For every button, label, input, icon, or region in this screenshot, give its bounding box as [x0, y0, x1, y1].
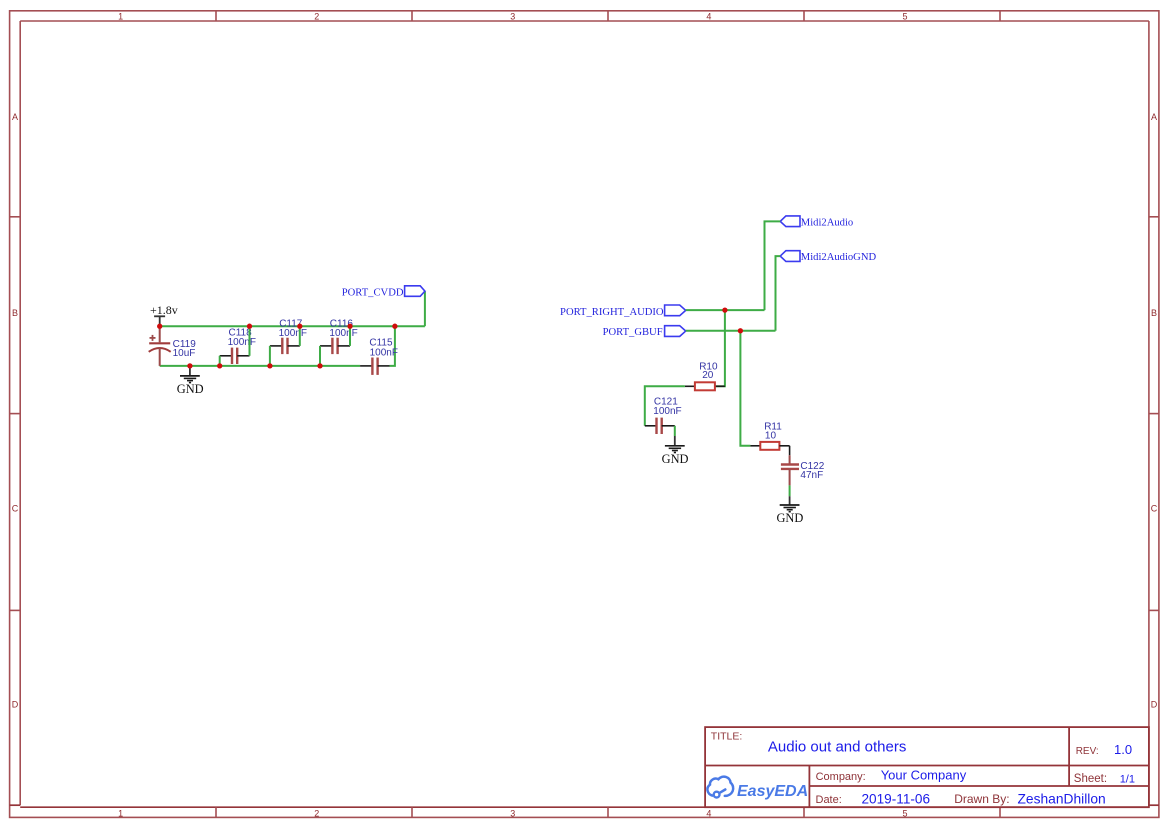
EasyEDA logo — [707, 777, 733, 798]
port PORT_CVDD — [342, 286, 425, 299]
svg-text:C: C — [1151, 504, 1158, 514]
svg-text:47nF: 47nF — [800, 470, 823, 481]
wire C117 right to top rail — [299, 326, 301, 346]
wire right-audio rail — [686, 309, 765, 311]
capacitor C119 — [149, 326, 197, 366]
wire C121 right down — [674, 426, 676, 436]
title block outline — [705, 727, 1149, 807]
wire right-audio junction down to R10 — [715, 310, 725, 386]
resistor R11 — [750, 422, 789, 456]
ground GND at C121 — [662, 436, 689, 466]
wire C118 right to top rail — [249, 326, 251, 356]
power flag +1.8v — [150, 303, 178, 326]
svg-text:4: 4 — [706, 11, 711, 21]
frame column ticks bottom — [216, 807, 1000, 817]
svg-text:B: B — [12, 308, 18, 318]
wire C122 to GND — [789, 485, 791, 496]
svg-text:D: D — [1151, 699, 1158, 709]
svg-text:Date:: Date: — [816, 794, 842, 806]
svg-text:10uF: 10uF — [173, 348, 196, 359]
wire C117 left to bottom rail — [269, 346, 271, 366]
capacitor C118 — [220, 328, 256, 365]
svg-text:5: 5 — [902, 808, 907, 818]
wire C116 left to bottom rail — [319, 346, 321, 366]
svg-text:Midi2Audio: Midi2Audio — [801, 218, 853, 229]
svg-text:TITLE:: TITLE: — [711, 731, 743, 743]
svg-text:5: 5 — [902, 11, 907, 21]
wire from PORT_CVDD down to top rail — [424, 291, 426, 326]
capacitor C115 — [360, 338, 398, 375]
frame row ticks left — [10, 217, 20, 611]
svg-text:GND: GND — [662, 452, 689, 466]
ground GND left — [177, 366, 204, 396]
svg-text:REV:: REV: — [1076, 746, 1099, 757]
wire C118 left to bottom rail — [219, 356, 221, 366]
svg-text:EasyEDA: EasyEDA — [737, 783, 808, 800]
svg-text:PORT_RIGHT_AUDIO: PORT_RIGHT_AUDIO — [560, 307, 664, 318]
port PORT_GBUF — [603, 326, 686, 338]
svg-text:A: A — [1151, 112, 1157, 122]
wire Midi2Audio to right-audio rail — [765, 221, 781, 310]
svg-text:2: 2 — [314, 808, 319, 818]
svg-text:B: B — [1151, 308, 1157, 318]
resistor R10 — [685, 361, 725, 390]
capacitor C121 — [645, 396, 682, 434]
svg-text:PORT_CVDD: PORT_CVDD — [342, 287, 404, 298]
wire gbuf junction down to R11 — [740, 331, 750, 446]
wire Midi2AudioGND to gbuf rail — [776, 256, 781, 331]
capacitor C116 — [320, 319, 358, 355]
svg-text:100nF: 100nF — [370, 348, 398, 359]
svg-text:2019-11-06: 2019-11-06 — [862, 791, 931, 806]
wire top rail — [160, 325, 425, 327]
svg-text:ZeshanDhillon: ZeshanDhillon — [1018, 791, 1106, 806]
junction dots top rail — [157, 324, 397, 329]
svg-text:D: D — [12, 699, 19, 709]
svg-text:Audio out and others: Audio out and others — [768, 739, 906, 756]
port Midi2Audio — [780, 216, 853, 229]
svg-text:Company:: Company: — [816, 771, 866, 783]
svg-text:3: 3 — [510, 11, 515, 21]
frame column labels bottom — [118, 808, 907, 818]
junction dot right-audio/R10 — [722, 307, 727, 312]
svg-text:A: A — [12, 112, 18, 122]
svg-text:Your Company: Your Company — [881, 768, 967, 783]
svg-text:+1.8v: +1.8v — [150, 303, 178, 317]
capacitor C117 — [270, 319, 307, 355]
svg-text:Sheet:: Sheet: — [1074, 773, 1107, 785]
svg-text:GND: GND — [177, 382, 204, 396]
svg-text:PORT_GBUF: PORT_GBUF — [603, 327, 663, 338]
junction dots bottom rail — [187, 363, 322, 368]
frame row labels left — [12, 112, 19, 709]
svg-text:Drawn By:: Drawn By: — [954, 792, 1009, 806]
junction dot gbuf/R11 — [738, 328, 743, 333]
frame row ticks right — [1149, 217, 1160, 611]
wire C116 right to top rail — [349, 326, 351, 346]
svg-text:100nF: 100nF — [228, 337, 256, 348]
frame column labels top — [118, 11, 907, 21]
svg-text:2: 2 — [314, 11, 319, 21]
capacitor C122 — [781, 455, 825, 485]
port Midi2AudioGND — [780, 251, 876, 264]
svg-text:C: C — [12, 504, 19, 514]
svg-text:10: 10 — [765, 430, 777, 441]
svg-text:Midi2AudioGND: Midi2AudioGND — [801, 252, 877, 263]
svg-text:4: 4 — [706, 808, 711, 818]
svg-text:20: 20 — [702, 370, 714, 381]
frame column ticks top — [216, 11, 1000, 21]
svg-text:100nF: 100nF — [653, 406, 681, 417]
svg-text:1/1: 1/1 — [1120, 773, 1135, 785]
wire gbuf rail — [686, 330, 776, 332]
svg-text:1.0: 1.0 — [1114, 742, 1132, 757]
svg-text:GND: GND — [776, 511, 803, 525]
svg-text:3: 3 — [510, 808, 515, 818]
ground GND at C122 — [776, 496, 803, 525]
frame row labels right — [1151, 112, 1158, 709]
wire R10 left to C121 — [645, 386, 685, 426]
wire bottom rail — [160, 365, 360, 367]
port PORT_RIGHT_AUDIO — [560, 305, 686, 318]
svg-text:1: 1 — [118, 11, 123, 21]
svg-text:1: 1 — [118, 808, 123, 818]
svg-text:100nF: 100nF — [279, 328, 307, 339]
svg-text:100nF: 100nF — [329, 328, 357, 339]
wire C115 right to top rail — [390, 326, 395, 366]
